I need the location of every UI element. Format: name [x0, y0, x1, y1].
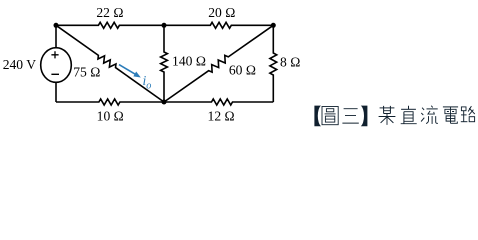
svg-text:140 Ω: 140 Ω: [172, 53, 206, 68]
svg-text:8 Ω: 8 Ω: [280, 55, 300, 70]
svg-text:20 Ω: 20 Ω: [208, 5, 235, 20]
svg-text:240 V: 240 V: [3, 57, 37, 72]
svg-text:10 Ω: 10 Ω: [97, 109, 124, 124]
svg-text:22 Ω: 22 Ω: [96, 5, 123, 20]
svg-text:12 Ω: 12 Ω: [208, 109, 235, 124]
svg-text:io: io: [143, 73, 152, 91]
svg-text:75 Ω: 75 Ω: [73, 65, 100, 80]
svg-text:60 Ω: 60 Ω: [229, 63, 256, 78]
